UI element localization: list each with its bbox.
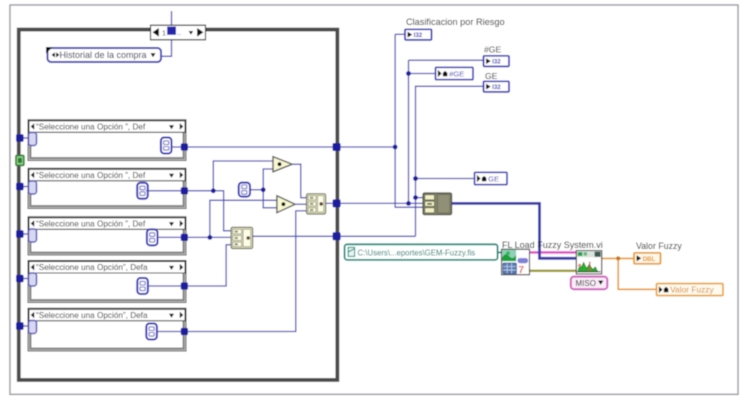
enum constant MISO xyxy=(571,277,608,290)
wire fuzzy system cluster xyxy=(528,251,576,253)
wire build array A out xyxy=(326,202,423,204)
subVI FL Load Fuzzy System xyxy=(502,249,530,276)
left tunnel 3 xyxy=(16,230,24,238)
wire left stub 4 xyxy=(20,278,29,280)
junction V2 local xyxy=(406,71,411,76)
main case structure frame xyxy=(19,30,338,380)
string tunnel terminal 3 xyxy=(29,229,37,242)
wire left stub 1 xyxy=(20,137,29,139)
indicator Valor Fuzzy (DBL) xyxy=(634,253,661,264)
wire error cluster xyxy=(528,270,576,272)
wire constant to comparator1 xyxy=(263,169,273,190)
right tunnel 1 xyxy=(333,143,341,151)
svg-text:7: 7 xyxy=(518,264,524,276)
build array B xyxy=(231,227,253,248)
svg-text:“Seleccione una Opción”, Defa: “Seleccione una Opción”, Defa xyxy=(36,311,148,320)
svg-text:Clasificacion por Riesgo: Clasificacion por Riesgo xyxy=(406,17,505,27)
numeric terminal case 2 xyxy=(137,183,148,199)
indicator GE (I32) xyxy=(484,81,510,92)
indicator Clasificacion (I32) xyxy=(405,29,432,40)
wire case3 output xyxy=(158,236,232,238)
junction V3 grey xyxy=(413,195,418,200)
string tunnel terminal 1 xyxy=(29,133,37,146)
svg-text:Valor Fuzzy: Valor Fuzzy xyxy=(670,284,714,294)
svg-text:#GE: #GE xyxy=(449,70,464,79)
svg-text:FL Load Fuzzy System.vi: FL Load Fuzzy System.vi xyxy=(502,240,603,250)
numeric terminal case 5 xyxy=(146,324,157,340)
wire case3 to comparator2 xyxy=(210,200,277,237)
string tunnel terminal 4 xyxy=(29,273,37,286)
indicator #GE (I32) xyxy=(484,56,510,67)
wire selector to combo xyxy=(161,39,172,56)
svg-text:DBL: DBL xyxy=(643,256,656,263)
junction constant xyxy=(261,187,266,192)
svg-text:GE: GE xyxy=(485,71,498,81)
wire V2 top xyxy=(409,59,484,61)
left tunnel 4 xyxy=(16,275,24,283)
numeric terminal case 1 xyxy=(161,138,172,154)
svg-text:C:\Users\...eportes\GEM-Fuzzy.: C:\Users\...eportes\GEM-Fuzzy.fis xyxy=(358,249,476,258)
svg-text:MISO: MISO xyxy=(576,279,596,288)
wire path to VI1 xyxy=(498,251,503,253)
case5 output tunnel xyxy=(181,328,188,335)
svg-text:#GE: #GE xyxy=(484,45,501,55)
wire Valor Fuzzy branch xyxy=(618,258,656,289)
wire V1 classification xyxy=(395,34,423,207)
wire V3 GE xyxy=(416,86,484,236)
inner case structure 1 xyxy=(28,120,186,161)
local variable #GE xyxy=(436,67,474,79)
string tunnel terminal 5 xyxy=(29,321,37,334)
inner case structure 4 xyxy=(28,261,186,303)
comparator node 1 xyxy=(273,157,292,172)
right tunnel 3 xyxy=(333,232,341,240)
wire left stub 3 xyxy=(20,233,29,235)
boolean tunnel (green) xyxy=(16,155,24,165)
inner case structure 5 xyxy=(28,308,186,351)
numeric terminal case 4 xyxy=(137,278,148,294)
subVI FL Fuzzy Controller xyxy=(576,251,601,274)
svg-text:1: 1 xyxy=(162,28,166,37)
wire constant to comparator2 xyxy=(263,190,277,208)
svg-text:..: .. xyxy=(177,28,181,37)
svg-text:“Seleccione una Opción ”, Def: “Seleccione una Opción ”, Def xyxy=(36,123,146,132)
numeric terminal case 3 xyxy=(147,229,158,245)
wire case2 to comparator1 xyxy=(213,161,273,191)
wire case2 output xyxy=(146,190,213,192)
case selector label xyxy=(151,25,206,40)
build array A xyxy=(307,194,326,214)
inner case structure 3 xyxy=(28,217,186,255)
wire left stub 2 xyxy=(20,186,29,188)
left tunnel 2 xyxy=(16,183,24,191)
junction case2 branch xyxy=(211,188,216,193)
svg-text:“Seleccione una Opción ”, Def: “Seleccione una Opción ”, Def xyxy=(36,220,146,229)
svg-text:“Seleccione una Opción ”, Def: “Seleccione una Opción ”, Def xyxy=(36,171,146,180)
wire V2 to local xyxy=(409,73,436,75)
comparator node 2 xyxy=(277,196,295,213)
svg-text:GE: GE xyxy=(488,175,499,184)
junction V3 local xyxy=(413,176,418,181)
path constant GEM-Fuzzy.fis xyxy=(345,244,498,260)
string tunnel terminal 2 xyxy=(29,181,37,194)
numeric constant xyxy=(239,183,250,197)
junction Valor Fuzzy xyxy=(616,256,620,260)
wire selector vertical xyxy=(171,11,173,27)
case3 output tunnel xyxy=(181,234,188,241)
wire case4 output xyxy=(148,245,231,286)
case2 output tunnel xyxy=(181,187,188,194)
junction V2 bottom xyxy=(406,201,411,206)
wire V3 to grey node xyxy=(416,197,424,199)
wire comparator1 out xyxy=(292,164,306,198)
left tunnel 1 xyxy=(16,134,24,142)
junction case3 branch xyxy=(208,235,213,240)
wire V1 to indicator xyxy=(395,33,405,35)
wire Valor Fuzzy out xyxy=(601,257,634,259)
wire left stub 5 xyxy=(20,325,29,327)
wire case1 output xyxy=(172,146,396,148)
left tunnel 5 xyxy=(16,322,24,330)
wire V2 #GE xyxy=(408,60,410,203)
case1 output tunnel xyxy=(181,143,188,150)
wire V3 to local GE xyxy=(416,178,475,180)
wire case2 to build array B xyxy=(213,191,231,231)
wire constant out xyxy=(250,189,263,191)
wire case5 output xyxy=(157,211,307,332)
svg-text:“Seleccione una Opción”, Defa: “Seleccione una Opción”, Defa xyxy=(36,263,148,272)
svg-text:I32: I32 xyxy=(492,58,501,65)
case4 output tunnel xyxy=(181,282,188,289)
svg-text:Historial de la compra: Historial de la compra xyxy=(60,50,147,60)
svg-text:I32: I32 xyxy=(414,32,423,39)
right tunnel 2 xyxy=(333,199,341,207)
wire input array (thick) xyxy=(452,203,576,258)
inner case structure 2 xyxy=(28,168,186,208)
combo box constant: Historial de la compra xyxy=(46,47,161,62)
svg-text:Valor Fuzzy: Valor Fuzzy xyxy=(636,241,682,251)
junction V1 case1 xyxy=(393,145,398,150)
wire build array B out xyxy=(253,235,416,237)
wire comparator2 out xyxy=(295,203,306,205)
local variable Valor Fuzzy xyxy=(657,284,724,296)
build array node (concatenate, grey) xyxy=(423,193,452,215)
svg-text:I32: I32 xyxy=(492,84,501,91)
local variable GE xyxy=(475,172,508,184)
